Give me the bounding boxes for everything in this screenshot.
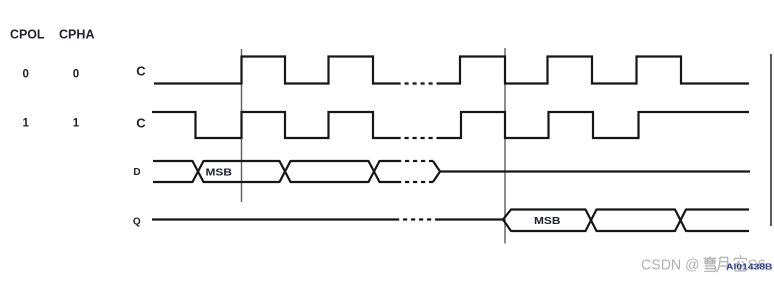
svg-text:C: C bbox=[136, 116, 146, 131]
svg-text:AI01438B: AI01438B bbox=[726, 263, 773, 272]
svg-text:Q: Q bbox=[133, 216, 141, 227]
pin label C (CPOL=1 clock) bbox=[136, 116, 146, 131]
watermark glyph 月 bbox=[717, 257, 728, 272]
reference line 1 (first clock edge marker) bbox=[241, 49, 243, 202]
clock C (CPOL=1) waveform solid wire bbox=[152, 112, 749, 138]
label CPOL bbox=[10, 28, 45, 42]
svg-text:CPHA: CPHA bbox=[59, 28, 95, 42]
watermark trailing characters S6 bbox=[748, 257, 766, 274]
pin label C (CPOL=0 clock) bbox=[136, 64, 146, 79]
D bus waveform (MSB-first data in) bbox=[153, 161, 397, 182]
svg-text:0: 0 bbox=[22, 69, 28, 81]
svg-text:C: C bbox=[136, 64, 146, 79]
Q solid wire to bus opening bbox=[439, 218, 503, 220]
svg-text:1: 1 bbox=[22, 118, 29, 130]
Q dashed wire segment bbox=[395, 218, 439, 220]
watermark glyph 雪 bbox=[704, 256, 717, 271]
svg-text:MSB: MSB bbox=[206, 167, 233, 178]
right border line of figure bbox=[770, 54, 772, 226]
value label MSB on Q bus bbox=[534, 216, 561, 227]
D idle wire after bus bbox=[440, 170, 750, 172]
clock C (CPOL=0) waveform solid wire bbox=[154, 57, 749, 84]
label CPHA bbox=[59, 28, 95, 42]
value CPHA=0 bbox=[73, 69, 79, 81]
clock C (CPOL=0) dashed wire segment bbox=[397, 82, 440, 84]
pin label Q (serial data out) bbox=[133, 216, 141, 227]
svg-text:CSDN @: CSDN @ bbox=[641, 257, 700, 274]
watermark CSDN @ bbox=[641, 257, 700, 274]
svg-text:1: 1 bbox=[73, 118, 80, 130]
reference line 2 (second byte start marker) bbox=[504, 48, 506, 244]
figure code AI01438B bbox=[726, 263, 773, 272]
pin label D (serial data in) bbox=[133, 167, 140, 178]
svg-text:0: 0 bbox=[73, 69, 79, 81]
value label MSB on D bus bbox=[206, 167, 233, 178]
D bus closing point bbox=[433, 161, 440, 182]
value CPOL=0 bbox=[22, 69, 28, 81]
watermark glyph 空 bbox=[734, 255, 746, 271]
Q idle wire before bus bbox=[152, 218, 395, 220]
value CPHA=1 bbox=[73, 118, 80, 130]
Q bus waveform (MSB-first data out) bbox=[503, 210, 749, 232]
D bus dashed segment bbox=[397, 161, 433, 182]
svg-text:CPOL: CPOL bbox=[10, 28, 45, 42]
value CPOL=1 bbox=[22, 118, 29, 130]
clock C (CPOL=1) dashed wire segment bbox=[397, 137, 440, 139]
svg-text:D: D bbox=[133, 167, 140, 178]
svg-text:MSB: MSB bbox=[534, 216, 561, 227]
